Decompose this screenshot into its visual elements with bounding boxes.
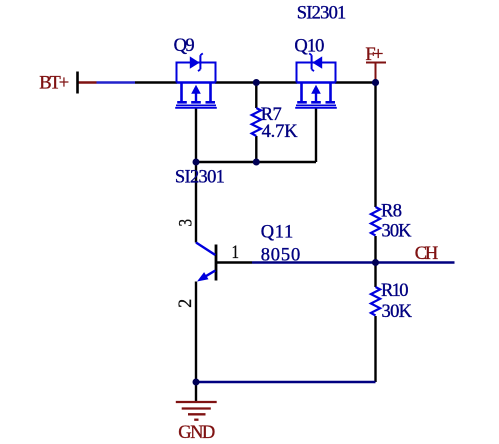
svg-text:Q11: Q11 [261,222,294,242]
svg-text:R8: R8 [381,201,402,221]
svg-text:30K: 30K [382,222,413,242]
svg-text:2: 2 [176,299,196,308]
svg-text:30K: 30K [382,302,413,322]
svg-text:CH: CH [415,244,439,264]
svg-text:F+: F+ [365,45,383,65]
svg-text:R10: R10 [381,281,409,301]
svg-text:Q10: Q10 [294,37,324,57]
svg-text:Q9: Q9 [174,36,195,56]
svg-text:4.7K: 4.7K [262,122,299,142]
svg-text:SI2301: SI2301 [297,3,347,23]
svg-text:1: 1 [232,243,240,263]
svg-text:SI2301: SI2301 [175,168,225,188]
svg-text:GND: GND [178,423,215,443]
svg-text:8050: 8050 [261,246,301,266]
svg-text:BT+: BT+ [39,74,69,94]
svg-text:3: 3 [176,219,196,227]
